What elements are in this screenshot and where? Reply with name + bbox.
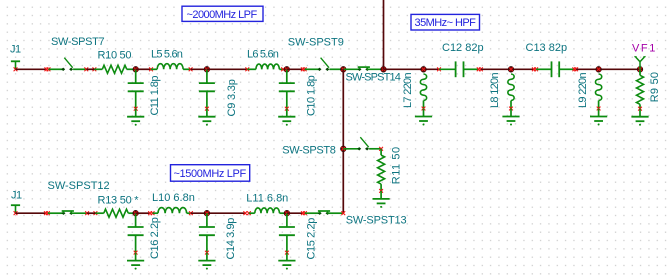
port J1 (top input) (10, 44, 21, 72)
svg-text:SW-SPST12: SW-SPST12 (48, 180, 110, 192)
svg-text:C16 2.2p: C16 2.2p (149, 217, 161, 259)
svg-text:L11 6.8n: L11 6.8n (246, 193, 288, 205)
node connection marks (243, 211, 250, 215)
svg-text:R13 50 *: R13 50 * (98, 194, 140, 206)
node junction (204, 210, 210, 216)
switch SW-SPST7 (51, 36, 104, 71)
capacitor C9 (198, 69, 238, 125)
svg-text:~2000MHz LPF: ~2000MHz LPF (187, 9, 258, 21)
svg-text:C14 3.9p: C14 3.9p (225, 218, 237, 260)
wire (369, 148, 381, 150)
wire (191, 212, 245, 214)
node connection marks (84, 67, 96, 71)
node connection mark (281, 67, 285, 71)
wire (384, 68, 440, 70)
wire (87, 212, 95, 214)
inductor L5 (151, 49, 191, 70)
svg-text:J1: J1 (10, 44, 21, 56)
svg-text:SW-SPST13: SW-SPST13 (346, 215, 407, 227)
wire (48, 212, 64, 214)
wire (342, 69, 344, 213)
svg-text:SW-SPST14: SW-SPST14 (346, 72, 401, 84)
wire (95, 212, 103, 214)
wire (481, 68, 534, 70)
node connection marks (85, 211, 97, 215)
switch SW-SPST12 (48, 180, 110, 215)
svg-text:L6 5.6n: L6 5.6n (247, 49, 279, 61)
node connection mark (437, 67, 441, 71)
capacitor C11 (127, 69, 161, 125)
svg-text:~1500MHz LPF: ~1500MHz LPF (174, 168, 247, 180)
node connection mark (189, 67, 193, 71)
svg-text:R10 50: R10 50 (98, 49, 132, 61)
resistor R13 (98, 194, 140, 217)
inductor L10 (152, 192, 195, 213)
svg-text:SW-SPST9: SW-SPST9 (288, 36, 344, 48)
ground (373, 189, 390, 208)
node connection marks (44, 211, 50, 215)
wire (343, 68, 359, 70)
port J1 (bottom input) (11, 190, 22, 215)
svg-text:R9 50: R9 50 (649, 72, 661, 103)
wire (191, 68, 207, 70)
wire (305, 68, 320, 70)
switch SW-SPST13 (318, 211, 407, 227)
title box 35MHz~ HPF (411, 14, 480, 30)
svg-text:L7 220n: L7 220n (402, 73, 414, 108)
svg-text:L8 120n: L8 120n (489, 73, 501, 108)
switch SW-SPST8 (282, 137, 369, 156)
svg-text:L5 5.6n: L5 5.6n (151, 49, 183, 61)
node connection marks (532, 67, 538, 71)
node connection marks (148, 211, 154, 215)
wire (136, 68, 151, 70)
svg-text:35MHz~ HPF: 35MHz~ HPF (415, 17, 477, 29)
wire (16, 212, 46, 214)
wire (49, 68, 64, 70)
node junction (133, 67, 139, 73)
resistor R9 (shunt) (631, 69, 661, 125)
inductor L9 (shunt) (577, 73, 607, 126)
node junction (284, 210, 290, 216)
node junction (284, 67, 290, 73)
svg-text:SW-SPST8: SW-SPST8 (282, 144, 335, 156)
node connection mark (245, 67, 249, 71)
wire (367, 68, 383, 70)
switch SW-SPST14 (346, 67, 401, 84)
node junction (133, 210, 139, 216)
svg-text:SW-SPST7: SW-SPST7 (51, 36, 104, 48)
wire (343, 148, 359, 150)
node connection mark (379, 147, 383, 151)
node connection mark (341, 211, 345, 215)
capacitor C13 (526, 42, 575, 77)
probe VF1 (632, 42, 657, 69)
node junction A2 (341, 146, 347, 152)
wire (287, 212, 303, 214)
svg-text:L9 220n: L9 220n (577, 73, 589, 108)
node connection marks (301, 67, 307, 71)
svg-text:J1: J1 (11, 190, 22, 202)
svg-text:C13 82p: C13 82p (526, 42, 568, 54)
node connection marks (45, 67, 51, 71)
svg-text:C9 3.3p: C9 3.3p (226, 79, 238, 116)
svg-text:R11 50: R11 50 (391, 146, 403, 184)
inductor L8 (shunt) (489, 73, 520, 126)
node junction B1 (381, 67, 387, 73)
node junction A1 (341, 67, 347, 73)
svg-text:VF1: VF1 (632, 42, 657, 54)
wire (207, 68, 247, 70)
node junction (508, 67, 514, 73)
svg-text:C11 1.8p: C11 1.8p (149, 76, 161, 116)
resistor R11 (378, 146, 403, 191)
capacitor C14 (198, 213, 237, 269)
node connection mark (189, 211, 193, 215)
inductor L6 (247, 49, 287, 70)
wire (16, 68, 47, 70)
node connection mark (149, 67, 153, 71)
wire (287, 68, 303, 70)
node junction (637, 67, 643, 73)
wire (94, 68, 102, 70)
svg-text:C15 2.2p: C15 2.2p (306, 218, 318, 260)
wire (383, 0, 385, 69)
wire (136, 212, 151, 214)
title box ~2000MHz LPF (182, 6, 263, 21)
capacitor C12 (439, 42, 484, 77)
wire (71, 212, 87, 214)
capacitor C10 (278, 69, 317, 125)
node connection marks (477, 67, 483, 71)
capacitor C16 (127, 213, 161, 269)
title box ~1500MHz LPF (171, 165, 250, 182)
wire (576, 68, 640, 70)
node junction (421, 67, 427, 73)
node junction (204, 67, 210, 73)
wire (305, 212, 320, 214)
inductor L11 (246, 193, 288, 214)
svg-text:C12 82p: C12 82p (442, 42, 484, 54)
wire (73, 68, 86, 70)
node connection marks (301, 211, 307, 215)
wire (328, 212, 344, 214)
node connection marks (572, 67, 578, 71)
capacitor C15 (278, 213, 317, 269)
svg-text:L10 6.8n: L10 6.8n (152, 192, 195, 204)
resistor R10 (98, 49, 136, 73)
switch SW-SPST9 (288, 36, 344, 71)
wire (86, 68, 94, 70)
node junction (596, 67, 602, 73)
svg-text:C10 1.8p: C10 1.8p (306, 75, 318, 116)
wire (329, 68, 343, 70)
inductor L7 (shunt) (402, 73, 432, 126)
